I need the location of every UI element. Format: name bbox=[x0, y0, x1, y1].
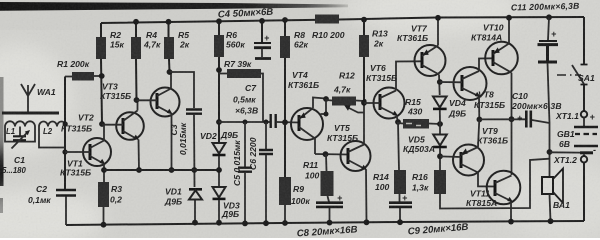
wire bottom ground rail bbox=[66, 221, 584, 225]
page scan left border bbox=[0, 77, 4, 186]
transistor VT8 KT315B bbox=[454, 67, 487, 100]
resistor R9 100k bbox=[279, 177, 291, 205]
resistor R2 15k bbox=[96, 37, 106, 59]
transistor VT3 KT315B bbox=[151, 88, 180, 117]
wire detector bus y122 bbox=[219, 121, 270, 123]
resistor R14 100 bbox=[398, 122, 399, 170]
resistor R16 1,3k bbox=[434, 170, 446, 194]
resistor R8 62k bbox=[280, 36, 290, 58]
wire node antenna coil to VT1 base / C2 bbox=[64, 77, 66, 191]
wire R5/VT3 collector to C3 bbox=[170, 72, 195, 108]
diode VD3 D9B bbox=[213, 187, 226, 198]
capacitor C1 (variable) bbox=[19, 127, 21, 136]
diode VD4 D9B bbox=[433, 97, 447, 108]
transistor VT2 KT315B bbox=[116, 112, 144, 140]
speaker BA1 bbox=[542, 177, 553, 194]
page scan top border bbox=[0, 2, 348, 11]
resistor R1 200k bbox=[65, 75, 102, 78]
diode VD2 D9B bbox=[213, 143, 226, 154]
terminal XT1.2 bbox=[581, 156, 587, 162]
capacitor C11 200mk (electrolytic) bbox=[546, 14, 552, 20]
node VT1 emitter / wire bbox=[101, 167, 107, 173]
node VT2 base / VT1 collector bbox=[99, 121, 105, 127]
transistor VT1 KT315B bbox=[83, 138, 111, 166]
terminal XT1.1 bbox=[581, 111, 587, 117]
resistor R4 4,7k bbox=[131, 37, 141, 59]
capacitor C10 200mk (electrolytic) bbox=[526, 111, 531, 128]
capacitor C6 2200 bbox=[264, 120, 269, 125]
wire emitter bus y170 bbox=[104, 169, 219, 171]
resistor R7 39k bbox=[219, 74, 263, 123]
transistor VT7 KT361B bbox=[415, 45, 446, 76]
ferrite rod bbox=[2, 112, 59, 115]
node VT8 base bbox=[437, 79, 443, 85]
wire VT4 collector bus to VT5 base bbox=[315, 153, 348, 156]
resistor R5 2k bbox=[164, 37, 174, 59]
coil L1 bbox=[5, 121, 35, 141]
transistor VT10 KT814A bbox=[485, 42, 518, 75]
transistor VT4 KT361B bbox=[291, 108, 323, 140]
resistor R15 430 bbox=[398, 123, 440, 124]
capacitor C3 bbox=[186, 110, 202, 114]
diode VD1 D9B bbox=[189, 188, 202, 191]
resistor R3 0,2 bbox=[98, 182, 109, 207]
transistor VT11 KT815A bbox=[487, 171, 521, 205]
transistor VT6 KT315B bbox=[374, 88, 405, 119]
potentiometer R12 4,7k bbox=[332, 97, 356, 106]
capacitor C2 bbox=[56, 190, 76, 196]
node VT1 base bbox=[62, 149, 67, 154]
resistor R6 560k bbox=[214, 35, 224, 57]
capacitor C4 50mk (vertical electrolytic) bbox=[261, 21, 263, 42]
coil L2 bbox=[39, 122, 66, 148]
capacitor C8 20mk (electrolytic) bbox=[316, 203, 343, 207]
antenna WA1 bbox=[21, 84, 35, 113]
capacitor C5 0,015mk bbox=[243, 120, 248, 125]
node output bbox=[477, 117, 483, 123]
node VT4 emitter / R12 left bbox=[323, 96, 329, 102]
node R1-R2 bbox=[99, 73, 105, 79]
transistor VT5 KT315B bbox=[341, 141, 371, 171]
wire output node to speaker bbox=[548, 63, 550, 176]
transistor VT9 KT361B bbox=[453, 145, 484, 176]
node L2 top bbox=[63, 121, 68, 126]
switch SA1 bbox=[583, 17, 585, 111]
wire top supply rail bbox=[101, 17, 584, 23]
capacitor C9 20mk (electrolytic) bbox=[389, 203, 412, 207]
battery GB1 6V bbox=[583, 118, 585, 127]
diode VD5 KD503A bbox=[439, 124, 441, 134]
resistor R10 200 (in supply rail) bbox=[315, 15, 339, 24]
capacitor C7 0,5mk bbox=[271, 114, 276, 128]
resistor R11 100 bbox=[325, 154, 328, 171]
resistor R13 2k bbox=[359, 35, 369, 57]
